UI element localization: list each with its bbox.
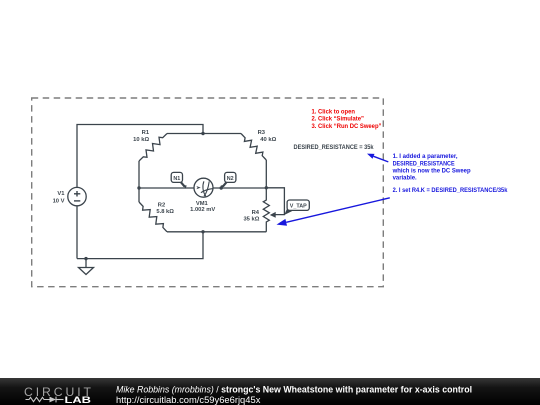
svg-text:40 kΩ: 40 kΩ — [260, 137, 276, 143]
potentiometer R4 — [263, 196, 269, 226]
junction node N2 — [220, 186, 223, 189]
resistor R2 — [139, 202, 167, 232]
logo CIRCUIT text — [24, 385, 92, 399]
resistor R1 — [139, 134, 167, 162]
wire R3 bottom to mid rail — [265, 160, 267, 188]
svg-text:N1: N1 — [173, 176, 180, 182]
svg-text:LAB: LAB — [65, 395, 92, 405]
wire R2 top lead — [138, 188, 140, 202]
voltmeter VM1 — [194, 178, 213, 197]
svg-text:DESIRED_RESISTANCE: DESIRED_RESISTANCE — [393, 160, 456, 167]
svg-text:10 V: 10 V — [53, 198, 65, 204]
svg-text:which is now the DC Sweep: which is now the DC Sweep — [392, 168, 471, 175]
wire top rail R1-R3 — [167, 133, 241, 135]
wire bottom rail R2-R4 — [167, 231, 266, 233]
svg-text:V_TAP: V_TAP — [290, 204, 307, 210]
blue arrow to DESIRED_RESISTANCE — [367, 154, 388, 162]
junction node mid-left — [137, 186, 140, 189]
svg-text:2. Click “Simulate”: 2. Click “Simulate” — [312, 116, 364, 123]
svg-text:V1: V1 — [57, 191, 65, 197]
resistor R2 label — [156, 202, 174, 215]
wire R4 top lead — [265, 188, 267, 196]
wire bottom center drop — [77, 232, 203, 259]
red annotation steps — [312, 108, 382, 130]
svg-text:Mike Robbins (mrobbins) / stro: Mike Robbins (mrobbins) / strongc's New … — [116, 385, 472, 395]
svg-text:R2: R2 — [158, 202, 165, 208]
blue annotation text 1 — [392, 153, 508, 194]
wire mid rail — [139, 187, 266, 189]
logo resistor-diode symbol — [26, 397, 64, 403]
svg-text:1.002 mV: 1.002 mV — [190, 207, 215, 213]
svg-text:R1: R1 — [142, 130, 150, 136]
svg-text:1. Click to open: 1. Click to open — [312, 108, 356, 115]
svg-text:3. Click “Run DC Sweep”: 3. Click “Run DC Sweep” — [312, 123, 382, 130]
svg-text:VM1: VM1 — [196, 201, 209, 207]
R4 wiper arrow — [270, 212, 276, 218]
resistor R1 label — [133, 130, 150, 143]
wire V1 bottom — [76, 206, 78, 259]
resistor R3 — [241, 134, 266, 161]
blue arrow to R4 — [277, 198, 390, 226]
svg-text:N2: N2 — [227, 176, 234, 182]
svg-text:variable.: variable. — [393, 175, 417, 182]
wire R4 bottom lead — [265, 226, 267, 232]
svg-text:5.8 kΩ: 5.8 kΩ — [156, 209, 174, 215]
svg-text:35 kΩ: 35 kΩ — [243, 217, 259, 223]
resistor R3 label — [258, 130, 277, 143]
footer bar — [0, 378, 540, 405]
junction node top — [201, 132, 204, 135]
svg-text:2. I set R4.K = DESIRED_RESIST: 2. I set R4.K = DESIRED_RESISTANCE/35k — [393, 187, 508, 194]
wire V_TAP tap — [266, 188, 284, 215]
logo LAB text — [65, 395, 92, 405]
voltage source V1 — [68, 187, 86, 205]
svg-text:DESIRED_RESISTANCE = 35k: DESIRED_RESISTANCE = 35k — [294, 144, 374, 151]
schematic sheet dashed border — [32, 98, 384, 287]
junction node bottom — [201, 230, 204, 233]
footer credit line — [116, 385, 472, 405]
node flag N2 — [221, 172, 236, 188]
VM1 label — [190, 201, 215, 213]
svg-text:10 kΩ: 10 kΩ — [133, 137, 149, 143]
node flag N1 — [171, 172, 187, 188]
svg-text:1. I added a parameter,: 1. I added a parameter, — [393, 153, 458, 160]
svg-text:R3: R3 — [258, 130, 266, 136]
potentiometer R4 label — [243, 210, 259, 222]
wire R1 bottom to mid rail — [138, 161, 140, 188]
ground — [79, 259, 94, 275]
V1 label — [53, 191, 66, 204]
parameter label DESIRED_RESISTANCE — [294, 144, 374, 151]
svg-text:R4: R4 — [252, 210, 260, 216]
svg-text:http://circuitlab.com/c59y6e6r: http://circuitlab.com/c59y6e6rjq45x — [116, 395, 261, 405]
junction node mid-right — [265, 186, 268, 189]
wire V1 top to top-left corner — [77, 125, 203, 188]
node flag V_TAP — [284, 200, 309, 215]
junction node ground — [84, 257, 87, 260]
